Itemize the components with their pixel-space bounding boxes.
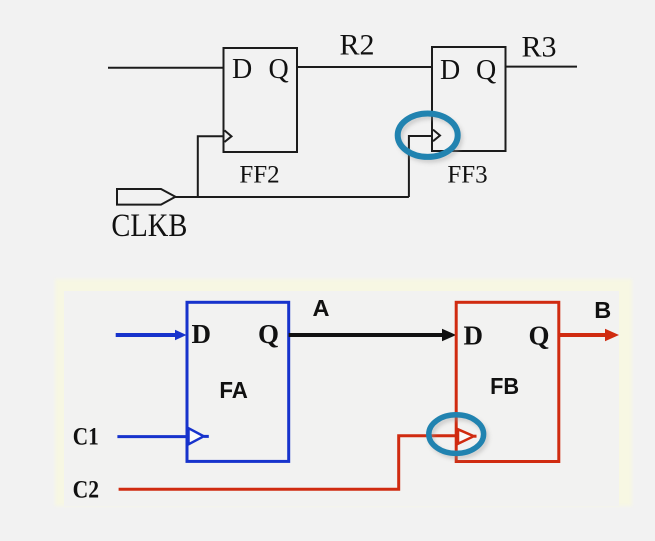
stub through FA clock triangle xyxy=(204,435,209,438)
wire C2 net xyxy=(119,436,456,490)
wire R3 net (FF3.Q output) xyxy=(506,66,578,68)
slide panel (pale yellow) xyxy=(55,279,632,506)
wire blue D-input arrow of FA xyxy=(116,330,187,340)
wire CLKB net xyxy=(175,196,409,198)
wire R2 net (FF2.Q to FF3.D) xyxy=(297,66,432,68)
svg-text:CLKB: CLKB xyxy=(111,208,187,244)
svg-text:Q: Q xyxy=(258,319,279,349)
clock triangle of FA xyxy=(189,428,204,444)
svg-text:C2: C2 xyxy=(73,475,99,504)
svg-text:R3: R3 xyxy=(521,31,556,64)
flip-flop FF2 xyxy=(224,48,298,152)
svg-text:FF3: FF3 xyxy=(447,161,487,188)
svg-text:D: D xyxy=(464,321,484,351)
svg-text:Q: Q xyxy=(476,55,496,86)
flip-flop FB xyxy=(456,302,559,461)
wire B net (FB.Q output, red arrow) xyxy=(559,329,619,341)
svg-text:B: B xyxy=(594,297,611,323)
flip-flop FA xyxy=(187,302,289,461)
annotation ellipse on FF3 clock xyxy=(398,114,461,161)
clock triangle of FB xyxy=(458,429,474,444)
svg-text:FA: FA xyxy=(219,377,248,403)
wire clock stub FF3 xyxy=(409,136,432,197)
flip-flop FF3 xyxy=(432,47,506,151)
annotation ellipse on FB clock xyxy=(429,415,486,457)
svg-text:D: D xyxy=(232,54,252,85)
svg-text:C1: C1 xyxy=(73,421,99,450)
svg-text:Q: Q xyxy=(269,54,289,85)
svg-text:FB: FB xyxy=(490,373,519,399)
wire C1 net xyxy=(117,435,187,438)
wire D-input of FF2 xyxy=(108,67,224,69)
wire A net (FA.Q to FB.D, black arrow) xyxy=(289,329,457,341)
svg-text:D: D xyxy=(440,55,460,86)
stub through FB clock triangle xyxy=(474,435,477,438)
CLKB input flag xyxy=(117,189,175,205)
svg-text:Q: Q xyxy=(529,321,550,351)
svg-text:A: A xyxy=(313,295,330,321)
wire clock stub FF2 xyxy=(198,136,224,197)
clock triangle of FF2 xyxy=(225,130,232,142)
svg-text:R2: R2 xyxy=(339,29,374,62)
svg-text:FF2: FF2 xyxy=(239,161,279,188)
svg-text:D: D xyxy=(192,319,212,349)
clock triangle of FF3 xyxy=(433,130,440,142)
